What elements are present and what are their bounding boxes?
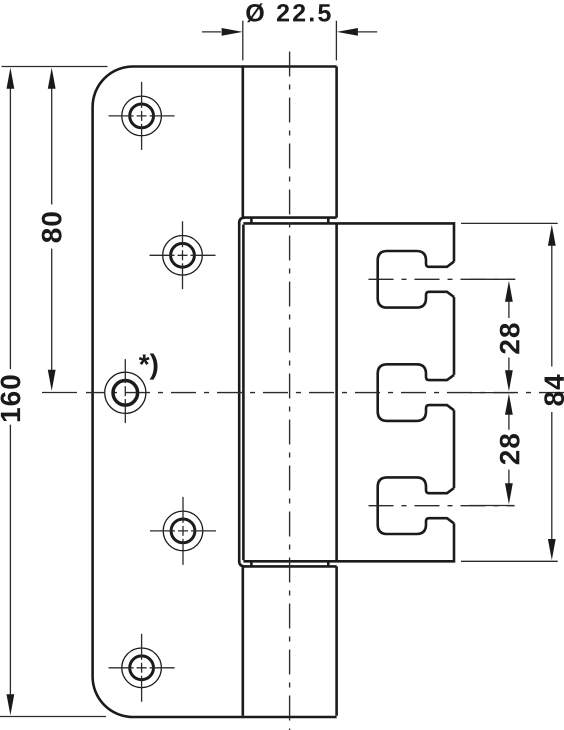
dimension 160 arrow up	[7, 68, 15, 89]
dimension 160 extension bottom	[0, 716, 106, 718]
dimension 160 text	[1, 375, 21, 421]
hole H4 bold ring	[171, 519, 195, 543]
joint tick top-right	[327, 218, 330, 224]
joint tick top-left	[250, 218, 253, 224]
dimension 80 arrow up	[48, 68, 56, 89]
barrel bottom knuckle left edge	[242, 566, 245, 715]
hole H2 crosshair vertical	[182, 221, 184, 289]
dimension 80 line upper	[51, 87, 53, 205]
dimension 80 extension bottom	[42, 392, 77, 394]
hole H3 outer circle	[105, 372, 146, 413]
cutout 1 (top)	[378, 251, 454, 308]
dimension 80 text	[42, 212, 62, 242]
barrel top knuckle left edge	[242, 67, 245, 218]
dimension 80 arrow down	[48, 370, 56, 391]
dimension 84 arrow down	[548, 539, 556, 560]
dimension 84 line upper	[551, 245, 553, 367]
middle knuckle right edge	[335, 223, 338, 561]
dimension 160 arrow down	[7, 694, 15, 715]
dimension 160 extension top	[2, 66, 108, 68]
hole H2 bold ring	[171, 243, 195, 267]
hole H3 bold ring	[113, 381, 138, 406]
dimension 28 extension at main axis	[470, 392, 515, 394]
frame plate right edge segment 1	[453, 222, 456, 262]
dimension 28 lower line	[508, 415, 510, 484]
hole H4 crosshair horizontal	[150, 530, 216, 532]
dimension 160 line upper	[9, 87, 11, 369]
barrel bottom knuckle right edge	[335, 566, 338, 715]
joint tick bottom-left	[250, 561, 253, 566]
barrel top knuckle right edge	[335, 67, 338, 218]
hole H1 outer circle	[122, 96, 162, 136]
barrel bottom knuckle top line	[244, 565, 337, 568]
hole H1 bold ring	[130, 104, 154, 128]
leaf wrap edge	[239, 218, 244, 567]
frame plate right edge segment 4	[453, 523, 456, 562]
dimension 28 lower arrow up	[505, 394, 513, 415]
dimension 28 lower arrow down	[505, 483, 513, 504]
dimension 84 arrow up	[548, 225, 556, 246]
dimension 84 extension bottom	[461, 560, 558, 562]
dimension 160 line lower	[9, 425, 11, 696]
main horizontal axis	[86, 392, 564, 394]
dimension 84 text	[544, 374, 564, 405]
frame plate right edge segment 2	[453, 297, 456, 375]
joint tick bottom-right	[327, 561, 330, 566]
cutout 3 (bottom)	[378, 477, 454, 534]
cutout 3 axis	[369, 505, 515, 507]
barrel top knuckle bottom line	[244, 216, 337, 219]
hole H1 crosshair vertical	[141, 82, 143, 150]
cutout 1 axis	[369, 278, 516, 280]
hole H5 crosshair horizontal	[109, 667, 175, 669]
hole H1 crosshair horizontal	[109, 115, 175, 117]
hole H2 outer circle	[163, 236, 203, 276]
door leaf outline	[93, 67, 337, 718]
dimension diameter 22.5 right arrow	[358, 31, 377, 33]
dimension diameter 22.5 extension left	[242, 21, 244, 61]
hole H4 outer circle	[163, 511, 203, 551]
dimension 28 upper text	[500, 323, 520, 353]
hole H5 crosshair vertical	[141, 634, 143, 702]
dimension 28 extension at cutout 1 axis	[470, 278, 516, 280]
dimension 28 upper arrow down	[505, 370, 513, 391]
vertical barrel axis	[289, 52, 291, 730]
hole H4 crosshair vertical	[182, 497, 184, 565]
middle knuckle left edge	[242, 225, 245, 560]
frame plate top edge	[243, 222, 454, 225]
dimension diameter 22.5 text	[246, 3, 330, 22]
hole H3 crosshair vertical	[124, 359, 126, 423]
dimension diameter 22.5 left arrow	[202, 31, 221, 33]
dimension 84 line lower	[551, 412, 553, 540]
cutout 2 (middle)	[378, 364, 454, 421]
dimension 80 line lower	[51, 249, 53, 371]
hole H5 bold ring	[130, 656, 154, 680]
dimension 28 lower text	[500, 434, 520, 464]
hole H5 outer circle	[122, 648, 162, 688]
dimension 28 upper line	[508, 301, 510, 371]
dimension 84 extension top	[461, 222, 558, 224]
star note	[139, 354, 158, 380]
hole H2 crosshair horizontal	[150, 254, 216, 256]
dimension 28 lower extension bottom	[469, 505, 515, 507]
frame plate bottom edge	[243, 560, 454, 563]
dimension 28 upper arrow up	[505, 281, 513, 302]
dimension diameter 22.5 extension right	[335, 21, 337, 61]
frame plate right edge segment 3	[453, 410, 456, 488]
